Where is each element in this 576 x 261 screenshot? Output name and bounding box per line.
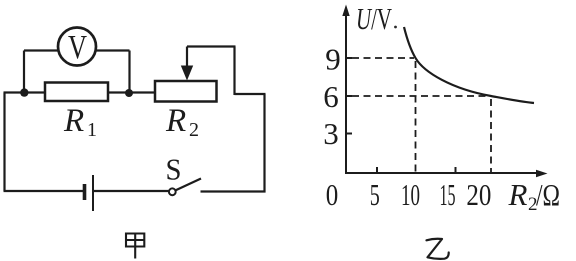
battery: short thick plate (negative) — [83, 184, 87, 200]
svg-text:10: 10 — [401, 177, 420, 212]
rheostat wiper arrowhead — [181, 66, 193, 81]
node dot right (junction) — [125, 89, 133, 97]
svg-text:S: S — [166, 152, 182, 187]
wire: voltmeter left lead — [24, 49, 59, 51]
svg-text:6: 6 — [323, 79, 339, 114]
y ticks — [346, 57, 352, 59]
dashed guide 9V horizontal — [352, 57, 414, 59]
wire: top wire from wiper arrow — [187, 45, 236, 47]
caption 乙 (drawn, CJK not in fonts) — [427, 239, 449, 259]
ink speck after U/V (scan artifact in source) — [394, 26, 397, 29]
voltmeter V circle — [58, 28, 96, 66]
svg-text:V: V — [68, 29, 87, 66]
resistor R2 (rheostat) box — [155, 81, 217, 102]
wire: main left segment to R1 — [4, 91, 46, 93]
svg-text:/Ω: /Ω — [536, 177, 560, 212]
wire: jog from right edge to wiper drop — [235, 93, 266, 95]
wire: bottom left to battery — [4, 190, 84, 192]
wire: right edge vertical — [263, 94, 265, 193]
wire: voltmeter right lead — [96, 49, 130, 51]
battery: long thin plate (positive) — [92, 175, 94, 211]
svg-text:0: 0 — [326, 177, 339, 212]
switch S: pivot circle — [169, 188, 176, 195]
wire: switch to bottom right corner — [201, 190, 266, 192]
dashed guide 20Ω vertical — [490, 99, 492, 172]
svg-text:15: 15 — [440, 177, 456, 212]
svg-text:R: R — [508, 177, 528, 212]
curve U vs R2 — [404, 27, 534, 103]
svg-text:R: R — [165, 103, 186, 139]
svg-text:R: R — [63, 103, 84, 139]
resistor R1 box — [45, 83, 108, 102]
wire: between R1 and R2 — [108, 91, 155, 93]
x-axis — [345, 172, 538, 174]
y-axis — [345, 13, 347, 173]
wire: wiper vertical drop — [233, 47, 235, 96]
svg-text:5: 5 — [370, 177, 380, 212]
svg-text:20: 20 — [466, 177, 491, 212]
node dot left (junction) — [20, 88, 28, 96]
caption 甲 (drawn, CJK not in fonts) — [126, 234, 144, 259]
svg-text:9: 9 — [325, 42, 341, 77]
svg-text:U/V: U/V — [356, 1, 392, 36]
switch S: lever — [176, 179, 201, 191]
wire: battery to switch — [94, 190, 169, 192]
svg-text:1: 1 — [87, 119, 97, 141]
dashed guide 6V horizontal — [352, 95, 489, 97]
wire: left edge vertical — [3, 93, 5, 192]
rheostat wiper arrow stem — [186, 47, 188, 68]
x ticks — [376, 167, 378, 173]
svg-text:3: 3 — [323, 116, 339, 151]
svg-text:2: 2 — [189, 119, 199, 141]
dashed guide 10Ω vertical — [415, 61, 417, 172]
